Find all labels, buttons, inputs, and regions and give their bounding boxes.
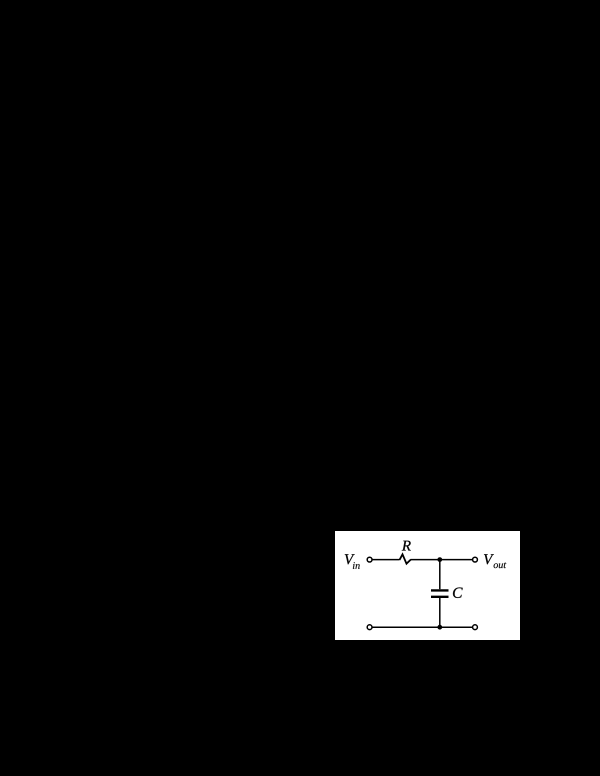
- wire resistor to junction: [411, 559, 440, 561]
- wire junction to Vout: [440, 559, 473, 561]
- label C: [453, 587, 463, 597]
- node Vin terminal: [367, 557, 372, 562]
- white schematic panel: [335, 531, 520, 640]
- node bottom-left terminal: [367, 625, 372, 630]
- node top junction: [437, 557, 442, 562]
- resistor R: [400, 554, 412, 563]
- label Vin: [345, 554, 360, 569]
- wire junction to capacitor top plate: [439, 560, 441, 590]
- node Vout terminal: [473, 557, 478, 562]
- capacitor C: [431, 590, 449, 596]
- label R: [402, 541, 411, 551]
- wire capacitor bottom plate to bottom rail: [439, 598, 441, 627]
- label Vout: [484, 554, 506, 568]
- node bottom junction: [437, 625, 442, 630]
- node bottom-right terminal: [473, 625, 478, 630]
- wire Vin to resistor: [372, 559, 399, 561]
- wire bottom rail: [372, 626, 472, 628]
